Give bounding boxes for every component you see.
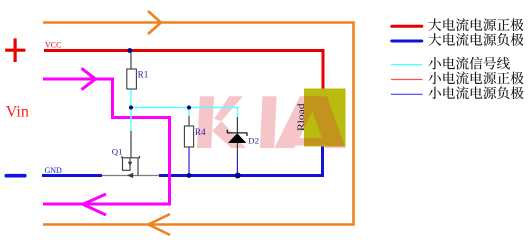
svg-text:R4: R4: [195, 127, 206, 137]
svg-text:Vin: Vin: [6, 104, 29, 121]
svg-text:Q1: Q1: [112, 147, 123, 157]
svg-text:D2: D2: [248, 136, 259, 146]
svg-text:VCC: VCC: [45, 41, 61, 50]
svg-text:GND: GND: [45, 166, 63, 175]
svg-text:Rload: Rload: [297, 103, 307, 131]
svg-text:R1: R1: [138, 70, 149, 80]
